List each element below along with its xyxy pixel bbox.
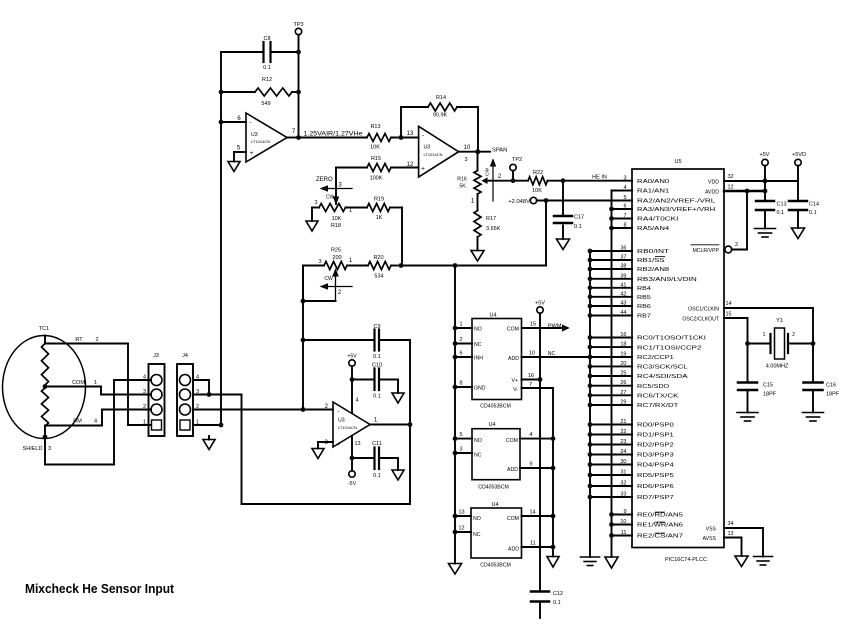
capacitor C10: [352, 379, 374, 381]
svg-text:NC: NC: [473, 532, 481, 538]
svg-text:RA5/AN4: RA5/AN4: [637, 226, 669, 232]
sensor element RT: [44, 336, 46, 344]
ground bus RB/RC/RD: [589, 251, 591, 557]
svg-text:RD6/PSP6: RD6/PSP6: [637, 484, 674, 490]
svg-text:0.1: 0.1: [553, 600, 561, 606]
svg-text:10K: 10K: [370, 145, 380, 151]
svg-text:9: 9: [529, 462, 532, 468]
svg-text:18PF: 18PF: [826, 392, 840, 398]
ground at switch bus: [449, 564, 462, 575]
svg-text:C10: C10: [372, 363, 382, 369]
svg-text:7: 7: [623, 213, 626, 219]
svg-text:RD4/PSP4: RD4/PSP4: [637, 463, 674, 469]
svg-text:TP3: TP3: [293, 22, 303, 28]
svg-text:10: 10: [464, 145, 471, 151]
svg-text:COM: COM: [507, 327, 519, 333]
svg-text:10: 10: [620, 519, 626, 525]
U5 VDD pin 32: [724, 180, 798, 182]
svg-text:CW: CW: [485, 168, 491, 176]
wire U3B output / SPAN: [459, 151, 490, 153]
wire feedback right side: [409, 340, 411, 504]
svg-text:GND: GND: [474, 386, 486, 392]
analog switch U4A: [472, 319, 522, 400]
svg-text:2: 2: [143, 404, 146, 410]
op-amp U3D: [333, 402, 370, 447]
wire U4A COM to PWM: [522, 327, 563, 329]
connector J4: [177, 364, 193, 436]
svg-text:NC: NC: [474, 342, 482, 348]
ground at C10: [392, 393, 404, 403]
svg-text:RB1/SS: RB1/SS: [637, 258, 665, 264]
svg-text:3: 3: [623, 176, 626, 182]
wire J4 pin1 to top-left block: [193, 424, 221, 426]
svg-text:RD2/PSP2: RD2/PSP2: [637, 443, 674, 449]
svg-text:7: 7: [529, 382, 532, 388]
svg-text:0.1: 0.1: [373, 394, 381, 400]
svg-text:100K: 100K: [370, 176, 383, 182]
svg-text:2: 2: [459, 337, 462, 343]
op-amp U3B: [419, 126, 459, 177]
wire left vertical C8/R12/pin6 to J4 pin1: [220, 52, 222, 425]
capacitor C13: [756, 200, 774, 203]
svg-text:ZERO: ZERO: [316, 177, 333, 183]
junction dots top-left: [219, 90, 224, 95]
svg-text:RB2/AN8: RB2/AN8: [637, 267, 669, 273]
wire J4 pin3 to bottom rail: [193, 394, 242, 396]
svg-text:+5VD: +5VD: [792, 152, 806, 158]
svg-text:C16: C16: [826, 383, 836, 389]
ground at J4: [208, 436, 210, 440]
svg-text:0.1: 0.1: [263, 65, 271, 71]
zero pot CW arrow: [327, 188, 352, 190]
svg-text:SPAN: SPAN: [492, 148, 507, 154]
svg-text:1.25VAIR/1.27VHe: 1.25VAIR/1.27VHe: [304, 131, 364, 138]
svg-text:NO: NO: [474, 438, 482, 444]
svg-text:6: 6: [459, 351, 462, 357]
U5 AVSS pin 13: [724, 537, 742, 539]
svg-text:RD1/PSP1: RD1/PSP1: [637, 433, 674, 439]
svg-text:13: 13: [458, 510, 464, 516]
svg-text:RB5: RB5: [637, 295, 651, 301]
resistor R19: [346, 207, 368, 209]
svg-text:MCLR/VPP: MCLR/VPP: [692, 248, 719, 254]
U5 port D pins: [590, 424, 632, 426]
analog switch U4C: [471, 508, 522, 558]
sensor element RM: [42, 388, 49, 426]
wire V- rail to ground: [552, 388, 554, 557]
svg-text:RC4/SDI/SDA: RC4/SDI/SDA: [637, 374, 688, 380]
svg-text:6: 6: [623, 204, 626, 210]
svg-text:COM: COM: [507, 516, 519, 522]
svg-text:19: 19: [620, 352, 626, 358]
svg-text:0.1: 0.1: [373, 354, 381, 360]
svg-text:NO: NO: [473, 516, 481, 522]
svg-text:15: 15: [725, 312, 731, 318]
svg-text:14: 14: [725, 301, 731, 307]
svg-text:3: 3: [48, 446, 51, 452]
svg-text:U4: U4: [488, 422, 495, 428]
wire R22 to PIC pin3 / HE IN: [548, 180, 633, 182]
svg-text:C8: C8: [263, 36, 270, 42]
svg-text:5K: 5K: [459, 184, 466, 190]
wire J4 pin4 to pin3 net: [193, 379, 209, 381]
potentiometer R18: [319, 204, 346, 212]
wire TP3 to U3A output node: [298, 40, 300, 138]
svg-text:12: 12: [458, 526, 464, 532]
svg-text:PIC16C74-PLCC: PIC16C74-PLCC: [665, 557, 707, 563]
resistor R15: [367, 164, 391, 172]
svg-text:+5V: +5V: [535, 301, 545, 307]
svg-text:CD4053BCM: CD4053BCM: [480, 404, 511, 410]
wire R15 to U3B pin12: [391, 167, 419, 169]
svg-text:NC: NC: [548, 351, 556, 357]
svg-text:RE0/RD/AN5: RE0/RD/AN5: [637, 513, 683, 519]
svg-text:COM: COM: [72, 380, 85, 386]
svg-text:32: 32: [727, 174, 733, 180]
svg-text:3.65K: 3.65K: [486, 226, 501, 232]
ground at C15: [737, 412, 758, 414]
svg-text:C12: C12: [553, 591, 563, 597]
svg-text:RE2/CS/AN7: RE2/CS/AN7: [637, 534, 683, 540]
ground at V- rail: [547, 557, 559, 568]
svg-text:C15: C15: [763, 383, 773, 389]
svg-text:16: 16: [620, 332, 626, 338]
svg-text:RA3/AN3/VREF+/VRH: RA3/AN3/VREF+/VRH: [637, 207, 715, 213]
svg-text:LT1014CN: LT1014CN: [338, 425, 357, 430]
svg-text:R25: R25: [331, 248, 341, 254]
svg-text:V-: V-: [513, 387, 518, 393]
wire SHIELD to J3 pin4: [44, 437, 46, 465]
svg-text:-5V: -5V: [348, 481, 357, 487]
capacitor C8: [221, 51, 263, 53]
svg-text:1: 1: [143, 420, 146, 426]
svg-text:13: 13: [354, 441, 360, 447]
svg-text:RD0/PSP0: RD0/PSP0: [637, 423, 674, 429]
svg-text:NC: NC: [474, 453, 482, 459]
svg-text:25: 25: [620, 371, 626, 377]
svg-text:+2.048V: +2.048V: [508, 199, 530, 205]
svg-text:4: 4: [94, 419, 97, 425]
svg-text:VSS: VSS: [706, 527, 717, 533]
U5 port E pins: [612, 514, 633, 516]
svg-text:34: 34: [727, 521, 733, 527]
U5 port B pins: [590, 250, 632, 252]
svg-text:22: 22: [620, 429, 626, 435]
U5 VSS pin 34: [724, 527, 763, 529]
svg-text:LT1014CN: LT1014CN: [251, 139, 270, 144]
svg-text:SHIELD: SHIELD: [23, 446, 43, 452]
svg-text:3: 3: [143, 389, 146, 395]
svg-text:31: 31: [620, 470, 626, 476]
svg-text:PWM: PWM: [548, 324, 562, 330]
svg-text:OSC1/CLKIN: OSC1/CLKIN: [688, 307, 719, 313]
svg-text:RM: RM: [73, 419, 82, 425]
svg-text:U3: U3: [338, 418, 345, 424]
svg-text:41: 41: [620, 282, 626, 288]
U5 MCLR pin 2: [725, 246, 732, 253]
wire +2.048V to PIC pin5: [537, 200, 632, 202]
svg-text:29: 29: [620, 400, 626, 406]
svg-text:U3: U3: [424, 145, 431, 151]
svg-text:RB0/INT: RB0/INT: [637, 249, 670, 255]
U5 OSC1 pin 14: [724, 307, 813, 309]
svg-text:8: 8: [459, 381, 462, 387]
svg-text:11: 11: [621, 530, 627, 536]
wire U4A ADD to PIC pin19: [522, 356, 633, 358]
svg-text:4: 4: [355, 398, 358, 404]
svg-text:RB6: RB6: [637, 304, 651, 310]
svg-text:INH: INH: [474, 356, 483, 362]
svg-text:1K: 1K: [376, 215, 383, 221]
resistor R14 feedback: [400, 107, 402, 138]
svg-text:U3: U3: [251, 132, 258, 138]
svg-text:15: 15: [530, 322, 536, 328]
U5 port C pins: [590, 337, 632, 339]
svg-text:RT: RT: [75, 337, 83, 343]
svg-text:5: 5: [459, 432, 462, 438]
svg-text:3: 3: [314, 200, 317, 206]
capacitor C11: [352, 457, 374, 459]
svg-text:RC5/SDO: RC5/SDO: [637, 384, 670, 390]
svg-text:44: 44: [620, 310, 626, 316]
wire COM to J3 pin3: [45, 386, 101, 388]
svg-text:11: 11: [530, 541, 536, 547]
microcontroller U5: [632, 169, 724, 548]
svg-text:-: -: [249, 119, 251, 126]
svg-text:C14: C14: [809, 202, 819, 208]
svg-text:2: 2: [792, 332, 795, 338]
svg-text:LT1014CN: LT1014CN: [424, 152, 443, 157]
svg-text:2: 2: [95, 337, 98, 343]
ground at VSS: [754, 556, 773, 558]
svg-text:RB4: RB4: [637, 286, 651, 292]
wire J4 pin2 to U3D pin2: [193, 409, 333, 411]
wire RT to J3 pin1: [45, 343, 128, 345]
svg-text:10K: 10K: [532, 188, 542, 194]
svg-text:4.00MHZ: 4.00MHZ: [766, 364, 789, 370]
wire inverting bus x303: [302, 266, 304, 410]
svg-text:RD7/PSP7: RD7/PSP7: [637, 495, 674, 501]
svg-text:C13: C13: [777, 202, 787, 208]
resistor R12: [221, 91, 255, 93]
svg-text:CD4053BCM: CD4053BCM: [478, 485, 509, 491]
ground bus RA/RE: [611, 191, 613, 558]
svg-text:HE IN: HE IN: [592, 175, 607, 181]
wire U4A V+: [522, 379, 541, 381]
svg-text:0.1: 0.1: [777, 210, 785, 216]
op-amp U3A: [246, 113, 287, 162]
resistor R13: [367, 134, 391, 142]
svg-text:OSC2/CLKOUT: OSC2/CLKOUT: [682, 317, 719, 323]
svg-text:26: 26: [620, 380, 626, 386]
svg-text:ADD: ADD: [508, 356, 519, 362]
R16 wiper: [483, 178, 488, 183]
potentiometer R16 span: [477, 152, 479, 171]
svg-text:RA2/AN2/VREF-/VRL: RA2/AN2/VREF-/VRL: [637, 199, 715, 205]
svg-text:RD3/PSP3: RD3/PSP3: [637, 453, 674, 459]
capacitor C15: [747, 344, 749, 383]
svg-text:27: 27: [620, 390, 626, 396]
capacitor C17: [562, 181, 564, 216]
connector J3: [149, 364, 165, 436]
svg-text:37: 37: [620, 255, 626, 261]
svg-text:2: 2: [735, 242, 738, 248]
svg-text:+: +: [337, 441, 341, 448]
svg-text:38: 38: [620, 264, 626, 270]
ground at R18: [306, 221, 318, 231]
svg-text:NO: NO: [474, 327, 482, 333]
svg-text:0.1: 0.1: [574, 224, 582, 230]
U5 AVDD pin 12: [724, 190, 765, 192]
svg-text:13: 13: [407, 131, 414, 137]
ground at R17: [471, 251, 484, 262]
svg-text:CD4053BCM: CD4053BCM: [480, 563, 511, 569]
svg-text:RC3/SCK/SCL: RC3/SCK/SCL: [637, 365, 688, 371]
svg-text:J4: J4: [182, 353, 188, 359]
capacitor C12: [531, 590, 549, 593]
svg-text:R14: R14: [436, 95, 446, 101]
svg-text:RA1/AN1: RA1/AN1: [637, 189, 669, 195]
svg-text:RA0/AN0: RA0/AN0: [637, 179, 669, 185]
svg-text:CW: CW: [326, 195, 335, 201]
svg-text:R12: R12: [262, 77, 272, 83]
svg-text:30: 30: [620, 459, 626, 465]
svg-text:1: 1: [459, 322, 462, 328]
svg-text:24: 24: [620, 449, 626, 455]
wire RM to J3 pin2: [45, 425, 102, 427]
svg-text:R15: R15: [371, 156, 381, 162]
svg-text:13: 13: [727, 531, 733, 537]
svg-text:18PF: 18PF: [763, 392, 777, 398]
resistor R17: [477, 194, 479, 211]
U5 OSC2 pin 15: [724, 317, 748, 319]
svg-text:AVDD: AVDD: [705, 190, 719, 196]
svg-text:RD5/PSP5: RD5/PSP5: [637, 473, 674, 479]
svg-text:RC1/T1OSI/CCP2: RC1/T1OSI/CCP2: [637, 345, 701, 351]
svg-text:9: 9: [623, 509, 626, 515]
svg-text:VDD: VDD: [708, 180, 719, 186]
svg-text:COM: COM: [506, 438, 518, 444]
ground at C14: [792, 228, 805, 239]
svg-text:RC0/T1OSO/T1CKI: RC0/T1OSO/T1CKI: [637, 336, 707, 342]
svg-text:36: 36: [620, 246, 626, 252]
svg-text:21: 21: [620, 419, 626, 425]
svg-text:R20: R20: [373, 255, 383, 261]
svg-text:+5V: +5V: [347, 354, 357, 360]
svg-text:33: 33: [620, 492, 626, 498]
capacitor C9 feedback: [303, 339, 374, 341]
ground at RA/RE bus: [605, 557, 618, 568]
ground at C17: [557, 239, 570, 250]
bottom feedback rail: [242, 503, 411, 505]
svg-text:TP2: TP2: [512, 157, 522, 163]
svg-text:C9: C9: [373, 324, 380, 330]
capacitor C16: [812, 344, 814, 383]
ground at C11: [392, 470, 404, 480]
svg-text:+: +: [421, 166, 425, 173]
svg-text:RE1/WR/AN6: RE1/WR/AN6: [637, 523, 683, 529]
svg-text:AVSS: AVSS: [703, 536, 717, 542]
svg-text:R16: R16: [457, 177, 467, 183]
svg-text:-: -: [422, 132, 424, 139]
svg-text:42: 42: [620, 291, 626, 297]
svg-text:R19: R19: [374, 197, 384, 203]
svg-text:RB7: RB7: [637, 314, 651, 320]
svg-text:14: 14: [529, 510, 535, 516]
svg-text:CW: CW: [324, 276, 333, 282]
analog switch input bus: [454, 266, 456, 564]
svg-text:12: 12: [727, 185, 733, 191]
svg-text:Mixcheck He Sensor Input: Mixcheck He Sensor Input: [25, 581, 175, 596]
svg-text:1: 1: [763, 332, 766, 338]
svg-text:3: 3: [318, 259, 321, 265]
svg-text:16: 16: [528, 373, 534, 379]
crystal Y1: [748, 343, 770, 345]
svg-text:0.1: 0.1: [373, 473, 381, 479]
svg-text:32: 32: [620, 481, 626, 487]
svg-text:90.9K: 90.9K: [433, 113, 448, 119]
svg-text:534: 534: [374, 274, 383, 280]
svg-text:549: 549: [261, 101, 270, 107]
svg-text:Y1: Y1: [776, 318, 783, 324]
sensor TC1: [3, 336, 86, 439]
svg-text:RB3/AN9/LVDIN: RB3/AN9/LVDIN: [637, 277, 697, 283]
svg-text:V+: V+: [512, 378, 519, 384]
svg-text:ADD: ADD: [507, 467, 518, 473]
svg-text:R17: R17: [486, 216, 496, 222]
svg-text:23: 23: [620, 439, 626, 445]
svg-text:4: 4: [529, 432, 532, 438]
svg-text:U4: U4: [491, 502, 498, 508]
svg-text:+5V: +5V: [760, 152, 770, 158]
ground at C16: [803, 412, 824, 414]
power -5V at U3D: [351, 436, 353, 471]
resistor R20: [368, 262, 391, 270]
svg-text:RC6/TX/CK: RC6/TX/CK: [637, 394, 679, 400]
resistor R22: [528, 177, 548, 185]
svg-text:R18: R18: [331, 223, 341, 229]
U5 pin label overlines: [655, 255, 664, 257]
svg-text:C17: C17: [574, 215, 584, 221]
zero wiper arrow into body: [334, 197, 339, 204]
svg-text:4: 4: [623, 185, 626, 191]
svg-text:3: 3: [464, 157, 467, 163]
svg-text:+: +: [250, 150, 254, 157]
svg-text:ADD: ADD: [508, 547, 519, 553]
wire U3A output to R13: [299, 137, 368, 139]
svg-text:43: 43: [620, 301, 626, 307]
power +5V at U4: [537, 307, 543, 313]
svg-text:U4: U4: [489, 313, 496, 319]
svg-text:20: 20: [620, 361, 626, 367]
svg-text:C11: C11: [372, 441, 382, 447]
svg-text:RA4/T0CKI: RA4/T0CKI: [637, 217, 679, 223]
ground at AVSS: [735, 556, 748, 567]
svg-text:18: 18: [620, 342, 626, 348]
wire summing node to +2.048V corner: [401, 265, 546, 267]
svg-text:10: 10: [529, 351, 535, 357]
svg-text:39: 39: [620, 273, 626, 279]
svg-text:U5: U5: [674, 159, 681, 165]
analog switch U4B: [472, 429, 520, 480]
svg-text:1: 1: [94, 380, 97, 386]
svg-text:-: -: [337, 409, 339, 416]
svg-text:5: 5: [623, 195, 626, 201]
svg-text:0.1: 0.1: [809, 210, 817, 216]
wire U4A V-: [522, 387, 554, 389]
svg-text:R22: R22: [533, 170, 543, 176]
wire U3D output: [370, 424, 410, 426]
